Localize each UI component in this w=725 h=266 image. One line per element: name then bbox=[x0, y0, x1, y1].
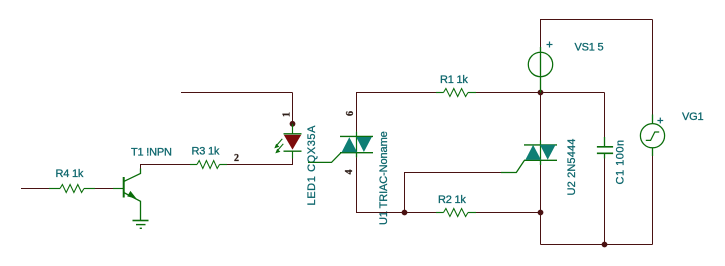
svg-text:C1 100n: C1 100n bbox=[615, 139, 627, 184]
wire C1 bottom bbox=[604, 159, 606, 245]
triac U2 bbox=[540, 140, 542, 160]
resistor R1 bbox=[436, 92, 444, 94]
svg-text:R1 1k: R1 1k bbox=[440, 74, 468, 86]
wire R3 to LED1 cathode bbox=[227, 159, 293, 165]
svg-text:R2 1k: R2 1k bbox=[438, 194, 466, 206]
wire R2 to U2 anode bbox=[476, 212, 541, 214]
wire top rail bbox=[541, 20, 653, 48]
junction node pin1 bbox=[290, 121, 296, 127]
svg-text:LED1 CQX35A: LED1 CQX35A bbox=[306, 125, 318, 206]
wire input left bbox=[21, 188, 49, 190]
wire gate riser bbox=[405, 173, 502, 213]
wire T1 collector to R3 bbox=[141, 165, 191, 169]
resistor R2 bbox=[436, 212, 444, 214]
svg-text:U1 TRIAC-Noname: U1 TRIAC-Noname bbox=[378, 131, 390, 225]
svg-text:2: 2 bbox=[234, 153, 239, 164]
wire U1 pin4 to R2 bbox=[357, 157, 405, 212]
junction R2/U2 bbox=[538, 210, 544, 216]
resistor R4 bbox=[49, 188, 60, 190]
wire U1 pin6 top bbox=[357, 93, 437, 132]
svg-text:T1 !NPN: T1 !NPN bbox=[131, 147, 172, 159]
svg-text:4: 4 bbox=[344, 170, 355, 175]
wire VG1 bottom bbox=[652, 156, 654, 245]
transistor T1 bbox=[113, 188, 124, 190]
svg-text:VS1 5: VS1 5 bbox=[575, 42, 604, 54]
svg-text:1: 1 bbox=[281, 112, 292, 117]
wire R4 to T1 base bbox=[95, 188, 113, 190]
generator VG1 bbox=[652, 115, 654, 124]
wire node to C1 branch bbox=[541, 92, 605, 94]
svg-text:6: 6 bbox=[345, 111, 356, 116]
wire C1 top bbox=[604, 93, 606, 138]
junction C1 bottom bbox=[602, 242, 608, 248]
U2 gate lead bbox=[501, 161, 524, 173]
wire down to LED1 bbox=[292, 93, 294, 124]
wire U2 to bottom bbox=[540, 165, 542, 245]
LED light arrows bbox=[276, 139, 282, 146]
wire bottom rail bbox=[541, 244, 653, 246]
svg-text:R4 1k: R4 1k bbox=[56, 168, 84, 180]
wire R2 left bbox=[405, 212, 437, 214]
capacitor C1 bbox=[604, 137, 606, 147]
resistor R3 bbox=[190, 164, 197, 166]
LED LED1 bbox=[292, 124, 294, 134]
wire VS1 node to U2 bbox=[540, 93, 542, 141]
voltage source VS1 bbox=[528, 52, 552, 76]
opto-triac U1 bbox=[356, 132, 358, 153]
junction R1/VS1/U2/C1 bbox=[538, 90, 544, 96]
ground bbox=[133, 220, 149, 222]
wire VG1 top bbox=[652, 20, 654, 115]
svg-text:VG1: VG1 bbox=[682, 111, 703, 123]
junction R2 gate node bbox=[402, 210, 408, 216]
svg-text:R3 1k: R3 1k bbox=[192, 146, 220, 158]
svg-text:U2 2N5444: U2 2N5444 bbox=[566, 139, 578, 196]
wire LED1 anode open end bbox=[181, 92, 293, 94]
wire R1 to node VS1 bbox=[476, 92, 541, 94]
